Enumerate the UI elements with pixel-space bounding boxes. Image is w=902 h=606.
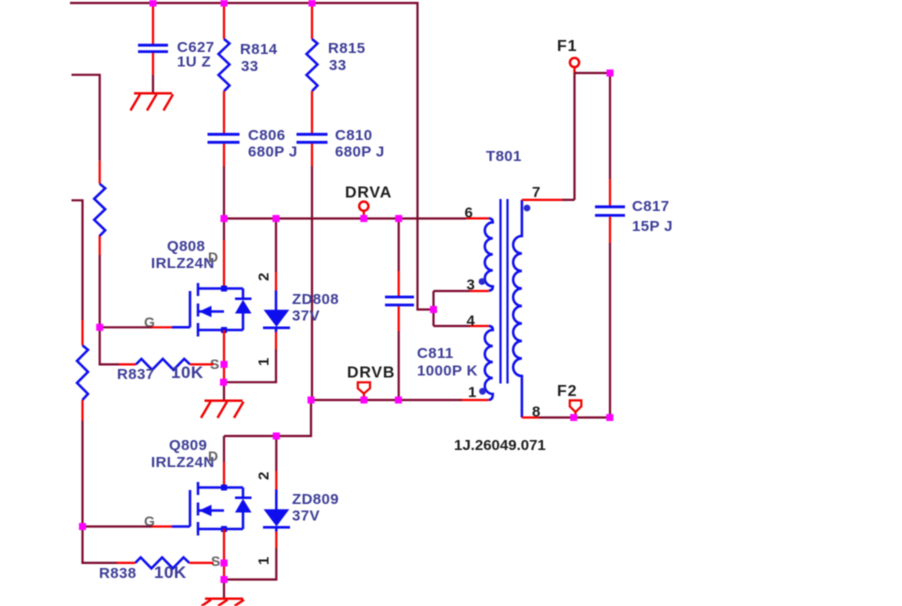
svg-text:7: 7 [532, 184, 540, 201]
svg-text:33: 33 [329, 57, 347, 74]
capacitor C627 [138, 3, 214, 93]
svg-text:T801: T801 [486, 148, 522, 165]
svg-text:1: 1 [468, 384, 476, 401]
svg-text:S: S [211, 553, 220, 569]
wire Q809 source to ground [223, 580, 225, 599]
svg-text:10K: 10K [154, 563, 187, 582]
svg-text:DRVB: DRVB [347, 365, 395, 382]
resistor R838 [83, 527, 214, 583]
wire left stub lower [72, 200, 83, 320]
svg-text:3: 3 [467, 277, 475, 294]
svg-text:1: 1 [256, 358, 273, 366]
svg-text:680P J: 680P J [335, 144, 385, 161]
capacitor C810 [297, 127, 385, 166]
pin 6 lead [466, 217, 489, 219]
svg-text:1000P K: 1000P K [417, 363, 478, 380]
wire DRVB to Q809 drain jog [224, 400, 311, 436]
wire left stub upper [72, 75, 100, 161]
ground (below C627) [131, 93, 174, 110]
core [501, 199, 508, 384]
capacitor C817 [595, 73, 673, 418]
primary winding lower (pins 4-1) [485, 326, 493, 400]
svg-text:C810: C810 [335, 127, 372, 144]
capacitor C811 [385, 219, 478, 401]
wire pin8 / F2 net [539, 416, 610, 418]
svg-text:37V: 37V [292, 508, 320, 525]
svg-text:2: 2 [256, 273, 273, 281]
node DRVB terminal [347, 365, 395, 400]
wire Q808 source to ground [223, 382, 225, 400]
wire bus drop to pins 3/4 junction [434, 291, 471, 326]
diode ZD808 [224, 219, 339, 383]
wire pin7 to F1 [562, 70, 575, 200]
svg-text:Q808: Q808 [167, 238, 205, 255]
svg-text:Q809: Q809 [169, 437, 207, 454]
svg-text:R837: R837 [117, 366, 154, 383]
svg-text:ZD808: ZD808 [292, 291, 339, 308]
svg-text:C811: C811 [417, 345, 454, 362]
transistor Q809 [144, 436, 252, 580]
node DRVA terminal [345, 185, 392, 219]
svg-text:680P J: 680P J [248, 144, 298, 161]
svg-text:R838: R838 [99, 565, 136, 582]
svg-text:15P J: 15P J [632, 218, 673, 235]
ground (below Q808) [201, 401, 244, 418]
svg-text:C806: C806 [248, 127, 285, 144]
svg-text:6: 6 [465, 205, 473, 222]
primary winding upper (pins 6-3) [485, 218, 493, 290]
svg-text:F2: F2 [557, 383, 577, 400]
wire F1 to C817 [575, 72, 611, 74]
resistor (unlabeled, lower-left) [77, 320, 88, 421]
wire to G junction of Q808 [99, 255, 101, 327]
pin 7 lead [522, 199, 562, 201]
wire DRVB net [311, 399, 462, 401]
secondary winding (pins 7-8) [513, 200, 522, 418]
transistor Q808 [144, 219, 252, 383]
node F2 terminal [557, 383, 581, 418]
svg-text:1J.26049.071: 1J.26049.071 [454, 437, 546, 454]
svg-text:F1: F1 [557, 38, 577, 55]
svg-text:10K: 10K [171, 363, 204, 382]
svg-text:IRLZ24N: IRLZ24N [151, 454, 215, 471]
svg-text:4: 4 [467, 313, 476, 330]
pin 3 lead [470, 290, 489, 292]
resistor (unlabeled, upper-left) [94, 161, 105, 255]
svg-text:R815: R815 [328, 40, 365, 57]
svg-text:1U Z: 1U Z [177, 54, 211, 71]
wire to G junction of Q809 [81, 421, 83, 527]
wire DRVA net [224, 217, 466, 219]
svg-text:2: 2 [256, 472, 273, 480]
svg-text:IRLZ24N: IRLZ24N [151, 255, 215, 272]
diode ZD809 [224, 436, 339, 580]
wire C806 to DRVA [223, 166, 225, 219]
ground (below Q809) [202, 599, 245, 606]
wire G net of Q809 [83, 525, 173, 527]
resistor R815 [307, 3, 366, 134]
svg-text:D: D [208, 448, 218, 464]
pin 4 lead [470, 325, 489, 327]
wire C810 down to DRVB (crosses DRVA wire) [311, 166, 313, 400]
pin 8 lead [522, 416, 539, 418]
svg-text:D: D [208, 249, 218, 265]
svg-text:1: 1 [256, 557, 273, 565]
capacitor C806 [208, 127, 298, 166]
svg-text:33: 33 [241, 58, 259, 75]
wire top bus [70, 3, 434, 310]
resistor R814 [219, 3, 278, 134]
pin 1 lead [462, 399, 489, 401]
node F1 terminal [557, 38, 579, 73]
svg-text:DRVA: DRVA [345, 185, 392, 202]
resistor R837 [100, 327, 214, 383]
svg-text:37V: 37V [292, 308, 320, 325]
svg-text:C817: C817 [632, 198, 669, 215]
transformer T801 [454, 148, 562, 454]
svg-text:R814: R814 [240, 41, 278, 58]
svg-text:ZD809: ZD809 [292, 491, 339, 508]
wire G net of Q808 [100, 326, 172, 328]
